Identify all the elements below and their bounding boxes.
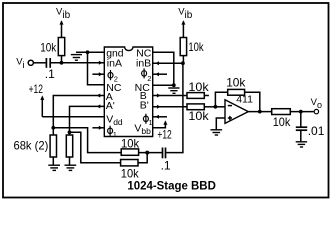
wire plus input to ground bbox=[216, 118, 225, 129]
node op-amp inverting input bbox=[214, 105, 218, 109]
terminal Vo bbox=[314, 109, 318, 113]
svg-text:Vi: Vi bbox=[16, 57, 24, 71]
resistor 10k sum A bbox=[121, 149, 138, 155]
wire resistor to Vib arrow bbox=[61, 22, 63, 38]
wire into inB bbox=[153, 62, 183, 64]
arrow into inB bbox=[155, 61, 159, 65]
svg-text:411: 411 bbox=[236, 94, 253, 106]
arrow out of A bbox=[97, 94, 101, 98]
arrow out of B' bbox=[157, 105, 161, 109]
IC U1 1024-stage BBD body bbox=[104, 47, 152, 137]
resistor 68k second bbox=[69, 132, 71, 135]
node summing junction bbox=[145, 151, 149, 155]
pin phi1 left bbox=[108, 126, 113, 136]
node output filter bbox=[299, 110, 303, 114]
pin phi1 right bbox=[143, 114, 148, 124]
svg-text:Vib: Vib bbox=[56, 6, 71, 21]
resistor 68k first bbox=[52, 128, 54, 135]
svg-text:Vo: Vo bbox=[311, 97, 322, 110]
arrow out of B bbox=[157, 94, 161, 98]
svg-text:Vib: Vib bbox=[178, 6, 193, 21]
resistor 10k feedback bbox=[228, 89, 245, 95]
wire NC right to ground bbox=[153, 52, 174, 85]
clock stub phi1 left bbox=[92, 127, 104, 129]
wire Vdd to +12 bbox=[42, 116, 104, 118]
node output feedback bbox=[258, 110, 262, 114]
svg-text:inA: inA bbox=[107, 58, 122, 70]
pin phi2 left bbox=[108, 70, 113, 80]
terminal Vi bbox=[28, 60, 33, 65]
plus sign bbox=[228, 117, 232, 119]
arrow into phi2 left bbox=[99, 72, 103, 76]
svg-text:2: 2 bbox=[114, 75, 118, 84]
svg-text:inB: inB bbox=[136, 58, 151, 70]
svg-text:10k: 10k bbox=[188, 109, 209, 123]
svg-text:.1: .1 bbox=[161, 159, 171, 173]
clock stub phi2 right bbox=[153, 73, 167, 75]
svg-text:1: 1 bbox=[149, 118, 153, 127]
arrow into phi2 right bbox=[155, 72, 159, 76]
node inB bias junction bbox=[181, 61, 185, 65]
svg-text:10k: 10k bbox=[226, 75, 246, 89]
svg-text:68k (2): 68k (2) bbox=[14, 138, 49, 152]
svg-text:+12: +12 bbox=[157, 128, 172, 142]
wire Vi to capacitor bbox=[34, 62, 46, 64]
svg-text:10k: 10k bbox=[273, 115, 291, 129]
ground at gnd pin bbox=[71, 55, 82, 61]
resistor 10k output bbox=[272, 109, 291, 115]
ground output filter bbox=[296, 142, 307, 147]
minus sign bbox=[228, 105, 232, 107]
wire output B bbox=[153, 95, 187, 97]
svg-text:.1: .1 bbox=[45, 67, 55, 81]
resistor 10k from B' bbox=[187, 104, 204, 110]
wire to Vo bbox=[290, 111, 314, 113]
wire A node to summing resistor bbox=[53, 128, 121, 153]
wire to op-amp minus bbox=[215, 106, 225, 108]
power Vib left arrow bbox=[60, 20, 64, 24]
wire gnd rail to NC pin bbox=[88, 52, 105, 85]
ground 68k second bbox=[65, 165, 77, 170]
wire A' node to summing resistor bbox=[70, 132, 121, 162]
border frame bbox=[3, 3, 329, 198]
ground 68k first bbox=[48, 165, 60, 170]
svg-text:10k: 10k bbox=[188, 40, 204, 54]
wire output A to 68k bbox=[53, 96, 104, 128]
wire gnd pin bbox=[76, 51, 104, 53]
svg-text:B': B' bbox=[140, 100, 149, 112]
power +12 right arrow bbox=[163, 120, 167, 124]
resistor 10k bias right (vertical) bbox=[182, 56, 184, 64]
svg-text:1024-Stage BBD: 1024-Stage BBD bbox=[127, 178, 216, 192]
node A load bbox=[51, 126, 55, 130]
capacitor .01 output bbox=[300, 112, 302, 127]
svg-text:10k: 10k bbox=[40, 41, 57, 55]
svg-text:+12: +12 bbox=[29, 82, 44, 96]
ground op-amp bbox=[211, 130, 223, 135]
svg-text:2: 2 bbox=[147, 74, 151, 83]
arrow into phi1 right bbox=[155, 115, 159, 119]
pin phi2 right bbox=[142, 68, 147, 78]
resistor 10k bias left (vertical) bbox=[61, 56, 63, 63]
clock stub phi1 right bbox=[153, 116, 167, 118]
wire NC row4 right bbox=[153, 84, 174, 86]
svg-text:10k: 10k bbox=[188, 80, 209, 94]
pin labels bbox=[106, 47, 152, 136]
svg-text:A': A' bbox=[106, 100, 115, 112]
wire feedback to output bbox=[245, 92, 260, 111]
resistor 10k from B bbox=[187, 93, 204, 99]
wire output A' to 68k bbox=[70, 106, 105, 132]
wire feedback up bbox=[215, 92, 227, 107]
wire Vbb to +12 bbox=[153, 122, 166, 128]
clock stub phi2 left bbox=[92, 73, 104, 75]
node on gnd wire bbox=[86, 50, 90, 54]
arrow into phi1 left bbox=[99, 126, 103, 130]
resistor 10k sum A' bbox=[121, 160, 138, 166]
capacitor .1 coupling bbox=[163, 148, 166, 159]
op-amp U2 411 bbox=[225, 100, 248, 124]
wire output B' bbox=[153, 106, 187, 108]
wire capacitor to inA pin bbox=[51, 62, 104, 64]
svg-text:10k: 10k bbox=[121, 136, 140, 150]
power +12 left arrow bbox=[41, 97, 43, 117]
capacitor .1 input bbox=[46, 58, 50, 68]
wire capacitor to inB rail bbox=[166, 63, 183, 152]
ground NC right bbox=[168, 88, 179, 93]
node A' load bbox=[68, 130, 72, 134]
power Vib right arrow bbox=[181, 20, 185, 24]
node input bias junction bbox=[60, 61, 64, 65]
svg-text:1: 1 bbox=[113, 130, 117, 139]
arrow out of A' bbox=[97, 104, 101, 108]
arrow into inA bbox=[99, 61, 103, 65]
wire op-amp output bbox=[248, 111, 271, 113]
svg-text:.01: .01 bbox=[308, 124, 325, 138]
